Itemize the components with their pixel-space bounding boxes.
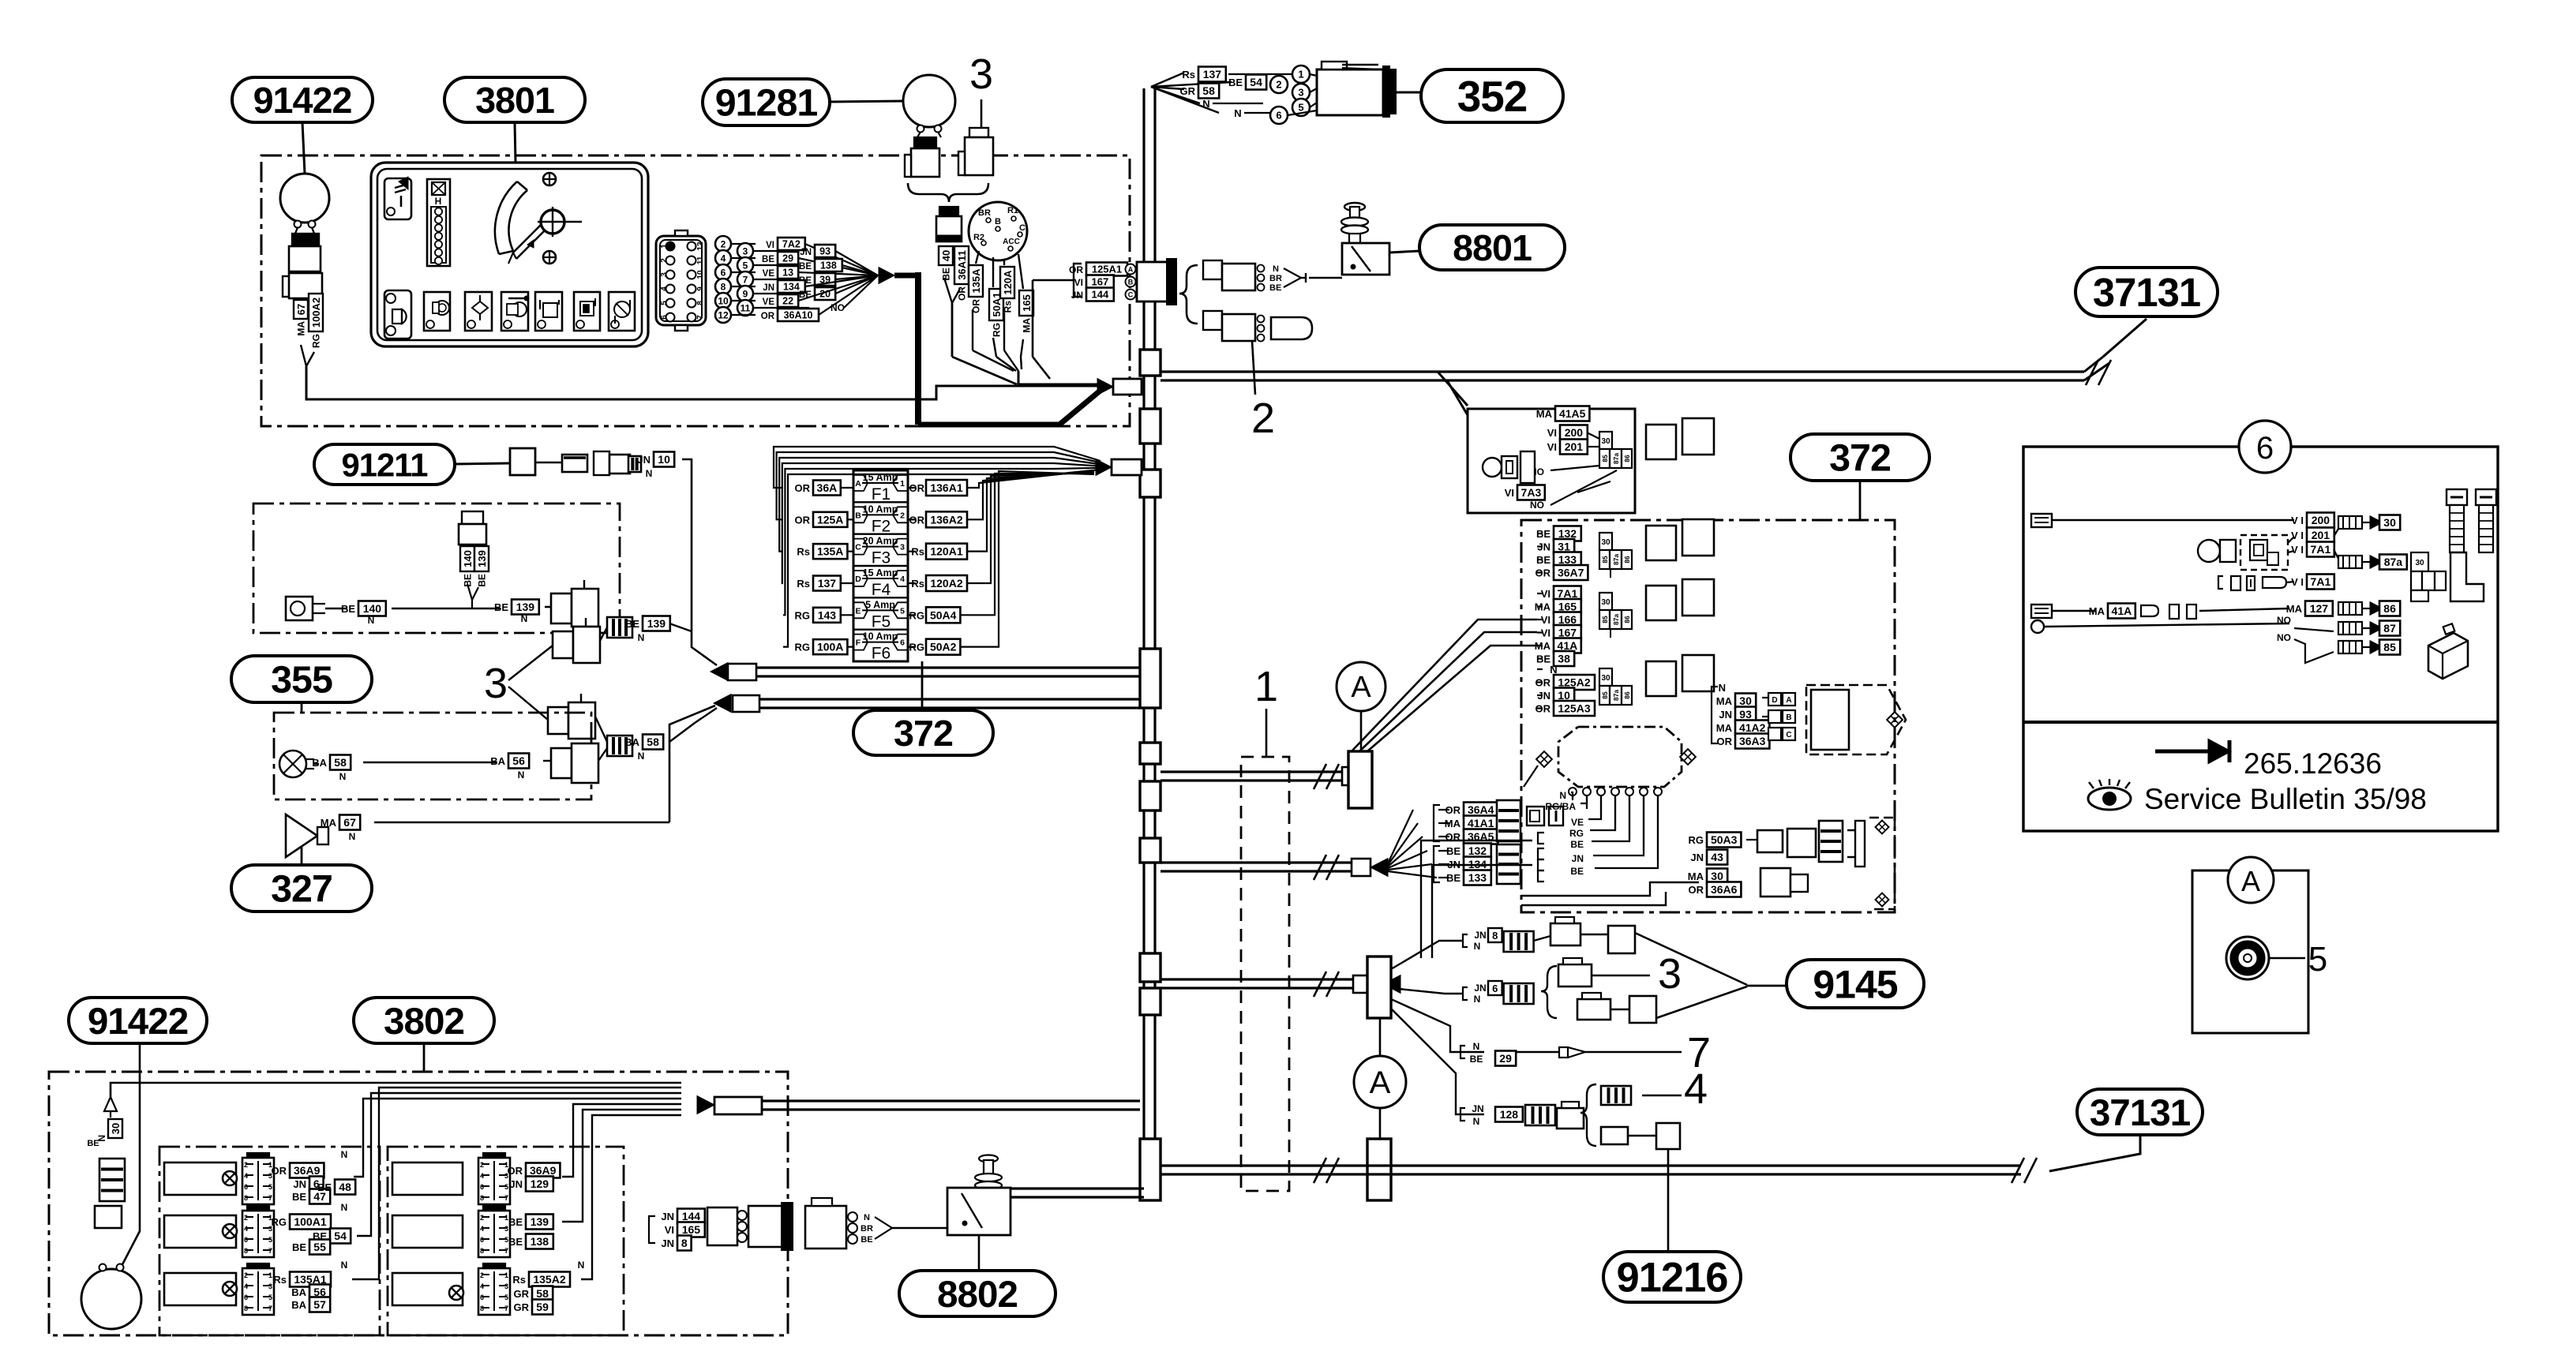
svg-text:BE: BE: [1536, 653, 1550, 665]
svg-text:37131: 37131: [2090, 1092, 2191, 1134]
svg-text:C: C: [855, 543, 861, 552]
svg-text:59: 59: [536, 1301, 549, 1313]
svg-text:30: 30: [110, 1123, 122, 1134]
svg-text:85: 85: [2383, 641, 2396, 653]
svg-text:BE: BE: [1570, 839, 1584, 850]
svg-text:36A9: 36A9: [294, 1164, 321, 1177]
svg-text:JN: JN: [1572, 853, 1584, 864]
svg-text:58: 58: [334, 756, 347, 769]
svg-text:JN: JN: [1537, 541, 1550, 553]
svg-text:F3: F3: [872, 549, 891, 567]
svg-text:4: 4: [244, 1282, 248, 1290]
svg-text:100A1: 100A1: [294, 1215, 326, 1228]
svg-text:BE: BE: [1269, 283, 1281, 293]
svg-text:NO: NO: [1530, 500, 1544, 511]
svg-text:200: 200: [1565, 426, 1584, 439]
svg-text:MA: MA: [1535, 601, 1551, 613]
svg-text:BR: BR: [861, 1224, 873, 1234]
svg-text:7: 7: [743, 274, 748, 285]
svg-text:BR: BR: [1269, 274, 1282, 283]
svg-text:87a: 87a: [1612, 690, 1620, 701]
svg-text:MA: MA: [1535, 640, 1551, 652]
svg-text:3: 3: [969, 51, 993, 98]
svg-text:41A5: 41A5: [1559, 407, 1586, 420]
svg-text:7: 7: [504, 1247, 508, 1255]
svg-text:167: 167: [1092, 276, 1109, 288]
svg-text:10: 10: [658, 453, 670, 466]
svg-text:OR: OR: [1069, 264, 1083, 275]
svg-text:41A: 41A: [1558, 639, 1578, 652]
svg-text:BA: BA: [312, 757, 327, 769]
svg-text:87a: 87a: [1612, 554, 1620, 565]
svg-text:138: 138: [531, 1235, 549, 1248]
svg-text:BE: BE: [494, 601, 508, 613]
svg-text:4: 4: [244, 1225, 248, 1233]
svg-text:8: 8: [1492, 930, 1498, 942]
svg-text:36A10: 36A10: [784, 310, 813, 321]
svg-text:6: 6: [2256, 431, 2274, 466]
svg-text:125A1: 125A1: [1092, 264, 1122, 275]
svg-text:6: 6: [900, 638, 905, 648]
svg-text:144: 144: [1092, 289, 1109, 301]
svg-text:355: 355: [271, 659, 332, 702]
svg-text:B: B: [1786, 713, 1791, 722]
svg-text:N: N: [349, 831, 356, 842]
svg-text:GR: GR: [1180, 85, 1196, 97]
svg-text:5: 5: [268, 1183, 272, 1191]
svg-text:91281: 91281: [715, 82, 818, 125]
svg-text:201: 201: [1565, 440, 1584, 453]
svg-text:11: 11: [741, 302, 751, 313]
svg-text:3801: 3801: [475, 80, 554, 121]
svg-text:91211: 91211: [342, 446, 429, 483]
svg-text:A: A: [1128, 266, 1134, 274]
svg-text:54: 54: [334, 1230, 347, 1242]
svg-text:BE: BE: [762, 255, 774, 264]
svg-text:BA: BA: [291, 1286, 306, 1298]
svg-text:6: 6: [480, 1236, 484, 1244]
svg-text:137: 137: [1203, 68, 1222, 80]
svg-text:40: 40: [940, 250, 952, 261]
svg-text:MA: MA: [2089, 605, 2105, 617]
svg-text:56: 56: [512, 754, 525, 767]
svg-text:JN: JN: [293, 1178, 306, 1190]
svg-text:30: 30: [2415, 559, 2424, 567]
svg-text:BA: BA: [490, 755, 505, 767]
svg-text:37131: 37131: [2093, 270, 2200, 315]
svg-text:A: A: [1351, 671, 1371, 704]
svg-text:11: 11: [696, 256, 705, 264]
svg-text:A: A: [1786, 696, 1791, 705]
svg-text:N: N: [341, 1202, 348, 1213]
svg-text:MA: MA: [1445, 818, 1461, 829]
svg-text:BE: BE: [292, 1241, 306, 1253]
svg-text:N: N: [339, 771, 347, 782]
svg-text:7A1: 7A1: [2311, 543, 2331, 556]
svg-text:2: 2: [1276, 79, 1281, 91]
svg-text:91422: 91422: [88, 1001, 188, 1043]
svg-text:86: 86: [1623, 556, 1631, 563]
svg-text:29: 29: [1499, 1052, 1512, 1065]
svg-text:1: 1: [900, 479, 905, 489]
svg-text:Rs: Rs: [1003, 301, 1014, 313]
svg-text:N: N: [1474, 941, 1481, 952]
svg-text:2: 2: [480, 1271, 484, 1279]
svg-text:85: 85: [1601, 556, 1609, 563]
svg-text:VE: VE: [763, 269, 775, 279]
svg-text:134: 134: [783, 282, 800, 293]
svg-text:VI: VI: [1505, 487, 1514, 499]
svg-text:58: 58: [647, 736, 659, 748]
svg-text:15 Amp: 15 Amp: [863, 567, 898, 578]
svg-text:NO: NO: [831, 302, 845, 313]
svg-text:1: 1: [268, 1271, 272, 1279]
svg-text:165: 165: [682, 1223, 701, 1236]
svg-text:F: F: [856, 638, 861, 648]
svg-text:JN: JN: [800, 248, 812, 257]
svg-text:4: 4: [721, 253, 726, 264]
svg-text:31: 31: [1558, 541, 1570, 553]
svg-text:36A9: 36A9: [530, 1164, 557, 1177]
svg-text:2: 2: [244, 1271, 248, 1279]
svg-text:2: 2: [244, 1161, 248, 1169]
svg-text:VI: VI: [1541, 614, 1550, 626]
svg-text:140: 140: [363, 602, 382, 615]
svg-text:7: 7: [268, 1194, 272, 1202]
svg-text:10: 10: [696, 270, 705, 279]
svg-text:OR: OR: [1689, 884, 1704, 896]
svg-text:N: N: [341, 1260, 348, 1271]
svg-text:139: 139: [531, 1215, 549, 1228]
svg-text:12: 12: [696, 241, 705, 251]
svg-text:87a: 87a: [1612, 453, 1620, 464]
svg-text:9: 9: [696, 286, 705, 291]
svg-text:7: 7: [268, 1247, 272, 1255]
svg-text:3: 3: [743, 245, 748, 256]
svg-text:372: 372: [894, 713, 953, 754]
svg-text:5 Amp: 5 Amp: [865, 599, 895, 610]
svg-text:MA: MA: [1536, 408, 1553, 420]
svg-text:A: A: [1370, 1065, 1391, 1100]
svg-text:D: D: [1772, 696, 1777, 705]
svg-text:BE: BE: [941, 268, 952, 281]
svg-text:N: N: [646, 468, 653, 479]
svg-text:BE: BE: [799, 262, 812, 271]
svg-text:F4: F4: [872, 581, 891, 599]
svg-text:327: 327: [271, 868, 332, 911]
svg-text:144: 144: [682, 1210, 701, 1222]
svg-text:125A2: 125A2: [1558, 676, 1590, 689]
svg-text:8: 8: [244, 1305, 248, 1312]
svg-text:5: 5: [1298, 102, 1303, 114]
svg-text:BE: BE: [625, 618, 639, 630]
svg-text:VE: VE: [763, 298, 775, 307]
svg-text:5: 5: [2308, 940, 2327, 979]
svg-text:8801: 8801: [1453, 227, 1532, 268]
svg-text:N: N: [341, 1149, 348, 1160]
svg-text:165: 165: [1021, 294, 1033, 312]
svg-text:N: N: [1473, 1041, 1480, 1052]
svg-text:4: 4: [480, 1282, 484, 1290]
svg-text:50A2: 50A2: [930, 641, 957, 653]
svg-text:140: 140: [462, 550, 474, 567]
svg-text:N: N: [521, 613, 528, 624]
svg-text:6: 6: [480, 1183, 484, 1191]
svg-text:6: 6: [244, 1236, 248, 1244]
svg-text:JN: JN: [661, 1211, 674, 1222]
svg-text:F2: F2: [872, 517, 891, 535]
svg-text:6: 6: [244, 1183, 248, 1191]
svg-text:A: A: [2241, 865, 2260, 897]
svg-text:8: 8: [244, 1247, 248, 1255]
svg-text:20 Amp: 20 Amp: [863, 536, 898, 547]
svg-text:F6: F6: [872, 645, 891, 663]
svg-text:OR: OR: [1535, 677, 1551, 689]
svg-text:2: 2: [480, 1161, 484, 1169]
svg-text:120A1: 120A1: [930, 545, 962, 558]
svg-text:JN: JN: [763, 283, 774, 293]
svg-text:7: 7: [504, 1194, 508, 1202]
svg-text:BE: BE: [1536, 528, 1550, 540]
svg-text:55: 55: [313, 1241, 326, 1253]
svg-text:2: 2: [660, 258, 669, 263]
svg-text:MA: MA: [296, 321, 307, 336]
svg-text:10: 10: [718, 295, 729, 306]
svg-text:133: 133: [1558, 553, 1577, 566]
svg-text:N: N: [368, 615, 375, 626]
svg-text:86: 86: [2383, 602, 2396, 615]
svg-text:91216: 91216: [1617, 1255, 1728, 1301]
svg-text:128: 128: [1500, 1108, 1519, 1121]
svg-text:135A2: 135A2: [533, 1273, 565, 1286]
svg-text:8802: 8802: [937, 1274, 1018, 1316]
svg-text:4: 4: [660, 286, 669, 291]
svg-text:138: 138: [820, 260, 837, 271]
svg-text:JN: JN: [637, 454, 651, 466]
svg-text:BE: BE: [508, 1236, 523, 1248]
svg-text:9: 9: [743, 288, 748, 299]
svg-text:3: 3: [268, 1282, 272, 1290]
svg-text:NO: NO: [2277, 615, 2291, 626]
svg-text:41A: 41A: [2112, 605, 2132, 617]
svg-text:A: A: [855, 479, 861, 489]
svg-text:12: 12: [718, 309, 729, 320]
svg-text:139: 139: [647, 617, 666, 630]
svg-text:8: 8: [696, 301, 705, 305]
svg-text:NO: NO: [2277, 632, 2291, 643]
svg-text:RG: RG: [992, 323, 1003, 337]
svg-text:VI: VI: [1541, 588, 1550, 600]
svg-text:132: 132: [1558, 527, 1577, 540]
svg-text:OR: OR: [1535, 567, 1551, 579]
svg-text:RG: RG: [272, 1216, 287, 1228]
svg-text:6: 6: [1276, 110, 1281, 122]
svg-text:93: 93: [1739, 708, 1752, 721]
svg-text:BA: BA: [624, 736, 639, 748]
svg-text:54: 54: [1250, 76, 1262, 88]
svg-text:3: 3: [660, 272, 669, 277]
svg-text:B: B: [995, 217, 1001, 226]
svg-text:C: C: [1786, 731, 1791, 739]
svg-text:JN: JN: [661, 1237, 674, 1249]
svg-text:JN: JN: [1071, 290, 1083, 301]
svg-text:OR: OR: [1717, 736, 1733, 747]
svg-text:N: N: [638, 751, 645, 762]
svg-text:B: B: [855, 511, 861, 520]
svg-text:2: 2: [244, 1214, 248, 1222]
svg-text:BE: BE: [1536, 554, 1550, 566]
svg-text:127: 127: [2310, 602, 2329, 615]
svg-text:OR: OR: [272, 1165, 287, 1177]
svg-text:7A1: 7A1: [2311, 575, 2331, 588]
svg-text:30: 30: [1601, 674, 1610, 683]
svg-text:5: 5: [268, 1293, 272, 1301]
svg-text:F5: F5: [872, 612, 891, 631]
svg-text:136A1: 136A1: [930, 481, 962, 494]
svg-text:36A7: 36A7: [1558, 567, 1584, 579]
svg-text:6: 6: [480, 1293, 484, 1301]
svg-text:V I: V I: [2291, 515, 2304, 526]
svg-text:Service Bulletin 35/98: Service Bulletin 35/98: [2144, 783, 2427, 815]
svg-text:120A: 120A: [1002, 270, 1014, 295]
svg-text:JN: JN: [1537, 690, 1550, 702]
svg-text:67: 67: [295, 304, 307, 315]
svg-text:N: N: [1202, 98, 1209, 110]
svg-text:265.12636: 265.12636: [2244, 747, 2382, 780]
svg-text:132: 132: [1468, 844, 1487, 857]
svg-text:135A: 135A: [970, 268, 982, 294]
svg-text:4: 4: [244, 1172, 248, 1180]
svg-text:41A1: 41A1: [1468, 817, 1494, 829]
svg-text:201: 201: [2312, 529, 2330, 541]
svg-text:135A: 135A: [817, 545, 843, 558]
svg-text:5: 5: [900, 606, 905, 616]
svg-text:JN: JN: [1474, 983, 1486, 994]
svg-text:36A4: 36A4: [1468, 803, 1494, 816]
svg-text:MA: MA: [1716, 722, 1733, 734]
svg-text:30: 30: [2383, 516, 2396, 529]
svg-text:Rs: Rs: [273, 1274, 287, 1286]
svg-text:58: 58: [1202, 84, 1215, 97]
svg-text:139: 139: [476, 550, 488, 567]
svg-text:4: 4: [1684, 1065, 1708, 1113]
svg-text:372: 372: [1829, 437, 1891, 480]
svg-text:200: 200: [2312, 514, 2330, 526]
svg-text:5: 5: [504, 1183, 508, 1191]
svg-text:F1: F1: [872, 485, 891, 504]
svg-text:7A1: 7A1: [1558, 587, 1578, 600]
svg-text:129: 129: [531, 1177, 549, 1190]
svg-text:N: N: [1719, 682, 1726, 694]
svg-text:RG/BA: RG/BA: [1545, 801, 1576, 812]
svg-text:BE: BE: [292, 1191, 306, 1203]
svg-text:MA: MA: [1716, 695, 1733, 707]
svg-text:B: B: [1128, 279, 1134, 286]
svg-text:4: 4: [900, 575, 905, 584]
svg-text:1: 1: [504, 1271, 508, 1279]
svg-text:6: 6: [244, 1293, 248, 1301]
svg-text:3: 3: [1658, 950, 1682, 998]
svg-text:87a: 87a: [2384, 556, 2403, 568]
svg-text:143: 143: [818, 608, 837, 621]
svg-text:C: C: [1128, 291, 1134, 299]
svg-text:VI: VI: [665, 1224, 674, 1236]
svg-text:38: 38: [1558, 653, 1570, 665]
svg-text:BE: BE: [341, 603, 355, 615]
svg-text:5: 5: [743, 260, 748, 271]
svg-text:BE: BE: [1446, 872, 1460, 884]
svg-text:N: N: [578, 1260, 585, 1271]
svg-text:MA: MA: [1022, 318, 1033, 333]
svg-text:BE: BE: [861, 1235, 872, 1245]
svg-text:8: 8: [480, 1247, 484, 1255]
svg-text:57: 57: [313, 1298, 326, 1311]
svg-text:2: 2: [900, 511, 905, 520]
svg-text:GR: GR: [514, 1301, 530, 1313]
svg-text:VI: VI: [766, 241, 774, 250]
svg-text:7A2: 7A2: [782, 239, 801, 250]
svg-text:JN: JN: [1690, 852, 1704, 863]
svg-text:100A: 100A: [817, 641, 843, 653]
svg-text:85: 85: [1601, 691, 1609, 699]
svg-text:120A2: 120A2: [930, 577, 962, 590]
svg-text:VI: VI: [1547, 441, 1557, 453]
svg-text:C: C: [1019, 223, 1026, 233]
svg-text:7A3: 7A3: [1521, 486, 1542, 499]
svg-text:86: 86: [1623, 616, 1631, 623]
svg-text:Rs: Rs: [797, 578, 810, 590]
svg-text:86: 86: [1623, 691, 1631, 699]
svg-text:139: 139: [516, 601, 535, 613]
svg-text:86: 86: [1623, 455, 1631, 462]
svg-text:OR: OR: [1445, 804, 1461, 816]
svg-text:N: N: [1234, 107, 1241, 119]
svg-text:10: 10: [1558, 689, 1570, 702]
svg-text:3802: 3802: [384, 1001, 464, 1043]
svg-text:1: 1: [660, 244, 669, 249]
svg-text:BE: BE: [477, 574, 488, 587]
svg-text:8: 8: [721, 281, 726, 292]
svg-text:2: 2: [480, 1214, 484, 1222]
svg-text:V I: V I: [2291, 530, 2304, 541]
svg-text:30: 30: [1739, 694, 1752, 707]
svg-text:5: 5: [504, 1293, 508, 1301]
svg-text:100A2: 100A2: [310, 298, 322, 328]
svg-text:165: 165: [1558, 601, 1577, 613]
svg-text:85: 85: [1601, 455, 1609, 462]
svg-text:N: N: [1474, 994, 1481, 1005]
svg-text:3: 3: [484, 660, 508, 707]
svg-text:8: 8: [244, 1194, 248, 1202]
svg-text:H: H: [435, 196, 442, 207]
svg-text:4: 4: [480, 1172, 484, 1180]
svg-text:Rs: Rs: [512, 1274, 526, 1286]
svg-text:67: 67: [343, 816, 356, 829]
svg-text:BE: BE: [508, 1216, 523, 1228]
svg-text:41A2: 41A2: [1739, 721, 1766, 734]
svg-text:5: 5: [268, 1236, 272, 1244]
svg-text:4: 4: [480, 1225, 484, 1233]
svg-text:R1: R1: [1007, 206, 1018, 215]
svg-text:RG: RG: [1689, 834, 1704, 846]
svg-text:JN: JN: [1474, 930, 1486, 941]
svg-text:30: 30: [1711, 870, 1723, 882]
svg-text:Rs: Rs: [1182, 69, 1195, 80]
svg-text:D: D: [855, 575, 861, 584]
svg-text:BR: BR: [978, 208, 991, 218]
svg-text:N: N: [638, 632, 645, 643]
svg-text:2: 2: [721, 238, 726, 249]
